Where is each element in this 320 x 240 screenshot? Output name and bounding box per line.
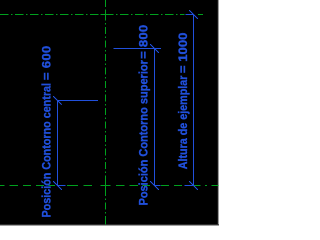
- svg-text:= 1000: = 1000: [176, 32, 189, 73]
- svg-text:Posición Contorno superior: Posición Contorno superior: [136, 60, 150, 206]
- svg-text:= 600: = 600: [40, 46, 53, 80]
- svg-text:Altura de ejemplar: Altura de ejemplar: [176, 75, 190, 169]
- svg-text:Posición Contorno central: Posición Contorno central: [39, 83, 53, 218]
- svg-text:= 800: = 800: [137, 25, 150, 59]
